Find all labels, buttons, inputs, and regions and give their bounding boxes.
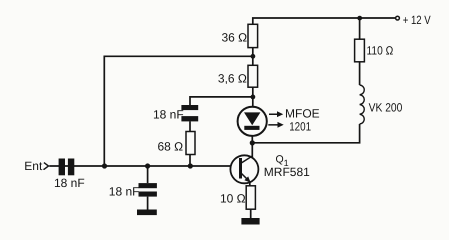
svg-text:MRF581: MRF581	[264, 165, 310, 179]
svg-text:110 Ω: 110 Ω	[367, 44, 394, 58]
svg-text:1201: 1201	[289, 120, 311, 134]
svg-text:Ent.: Ent.	[24, 159, 45, 173]
svg-text:10 Ω: 10 Ω	[220, 192, 246, 206]
svg-text:18 nF: 18 nF	[109, 184, 140, 198]
svg-text:3,6 Ω: 3,6 Ω	[218, 72, 247, 86]
svg-text:+ 12 V: + 12 V	[403, 13, 431, 27]
svg-text:MFOE: MFOE	[285, 107, 320, 121]
svg-text:18 nF: 18 nF	[54, 176, 85, 190]
svg-text:18 nF: 18 nF	[153, 108, 184, 122]
svg-text:36 Ω: 36 Ω	[222, 31, 248, 45]
svg-text:68 Ω: 68 Ω	[158, 140, 184, 154]
svg-text:VK 200: VK 200	[369, 101, 403, 115]
